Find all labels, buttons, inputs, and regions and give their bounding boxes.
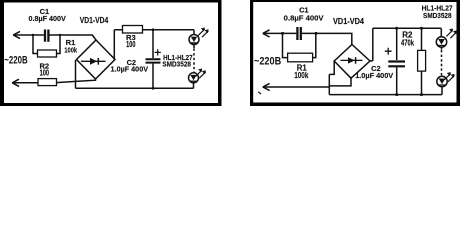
wire: top AC rail from C1 to bridge top corner — [50, 35, 97, 40]
wire: DC- return rail — [76, 87, 194, 89]
svg-text:~220B: ~220B — [254, 56, 281, 68]
capacitor C2 plates (right) — [388, 62, 405, 67]
wire: LED string dashed (right) — [441, 47, 443, 49]
capacitor C2 plates (left) — [146, 59, 161, 62]
wire: top AC rail to C1 — [263, 32, 297, 34]
diode inside bridge (right) — [341, 57, 363, 64]
left panel frame — [0, 0, 222, 106]
wire: stub R1 right (right) — [313, 33, 316, 57]
resistor R1 body — [38, 50, 57, 57]
resistor R1 body (right) — [288, 53, 313, 62]
svg-text:VD1-VD4: VD1-VD4 — [80, 16, 109, 25]
wire: bottom AC rail — [263, 86, 330, 88]
wire: C1 to bridge top stub — [302, 33, 352, 44]
labels left panel — [4, 7, 192, 78]
wire: R2 top branch (right) — [421, 28, 423, 50]
node: C2 bottom junction (right) — [395, 93, 398, 96]
svg-text:470k: 470k — [401, 38, 414, 47]
wire: C2 bottom to return rail — [152, 64, 154, 89]
plus polarity mark C2 (left) — [155, 49, 161, 55]
bridge rectifier VD1-VD4 diamond (left) — [77, 40, 116, 79]
wire: stub down to R1 left — [33, 35, 38, 54]
wire: tall vertical node (right) — [328, 74, 330, 94]
svg-text:100: 100 — [40, 69, 50, 78]
wire: link to bridge left corner (right) — [329, 61, 334, 74]
plus polarity mark C2 (right) — [385, 48, 392, 55]
resistor R2 body — [38, 79, 57, 86]
wire: top AC rail from arrow to C1 — [13, 34, 44, 36]
wire: jog to bridge bottom corner (right) — [329, 78, 351, 86]
wire: LED1 feed (right) — [440, 28, 442, 36]
LED HL27 emission arrows (right) — [444, 72, 454, 82]
svg-text:SMD3528: SMD3528 — [162, 60, 191, 69]
wire: LED2 bottom to return (right) — [441, 87, 443, 95]
wire: DC+ rail from R3 to LED1 — [143, 29, 195, 31]
wire: R2 to bridge bottom corner — [57, 79, 96, 83]
wire: C2 branch down — [152, 30, 154, 58]
svg-text:100: 100 — [126, 40, 136, 49]
LED HL1 (right) — [436, 37, 446, 47]
svg-text:~220B: ~220B — [4, 55, 28, 67]
svg-text:VD1-VD4: VD1-VD4 — [333, 17, 364, 26]
node: C2 top junction — [152, 28, 155, 31]
svg-text:0.8µF 400V: 0.8µF 400V — [284, 14, 324, 23]
svg-text:100k: 100k — [64, 45, 77, 54]
wire: bridge right corner up to DC+ rail — [114, 30, 122, 60]
svg-text:SMD3528: SMD3528 — [423, 11, 452, 20]
node: rail stub junctions (left) — [32, 34, 61, 36]
capacitor C1 plates (right) — [297, 27, 300, 40]
scan speck artifact — [258, 92, 261, 94]
wire: C2 bottom to return (right) — [396, 67, 398, 94]
wire: stub R1 right up to rail — [57, 35, 61, 54]
LED HL27 (right) — [437, 76, 447, 86]
LED HL27 emission arrows (left) — [196, 69, 206, 79]
AC input arrow top (right panel) — [263, 30, 270, 37]
wire: stub down to R1 left (right) — [283, 33, 288, 57]
svg-text:100k: 100k — [294, 71, 309, 80]
wire: DC- return rail (right) — [329, 94, 442, 96]
wire: LED2 bottom to return rail — [193, 83, 195, 89]
bridge rectifier VD1-VD4 diamond (right) — [334, 45, 370, 79]
wire: bottom AC to R2 — [12, 82, 38, 84]
LED HL1 (left) — [189, 35, 199, 45]
AC input arrow top (left panel) — [13, 31, 20, 38]
resistor R2 body vertical (right) — [418, 50, 426, 71]
resistor R3 body — [123, 26, 143, 34]
svg-text:1.0µF 400V: 1.0µF 400V — [111, 65, 149, 74]
svg-text:1.0µF 400V: 1.0µF 400V — [355, 71, 393, 80]
LED HL1 emission arrows (left) — [198, 28, 208, 38]
diode inside bridge (left) — [81, 58, 106, 65]
wire: C2 branch (right) — [396, 28, 398, 60]
node: C1 parallel junctions (right) — [281, 32, 318, 35]
wire: R2 bottom to return (right) — [421, 71, 423, 95]
labels right panel — [254, 4, 453, 81]
capacitor C1 plates — [45, 30, 48, 42]
node: R2 top junction (right) — [420, 27, 423, 30]
wire: bridge right corner up to DC+ rail (right) — [370, 28, 441, 61]
AC input arrow bottom (left panel) — [12, 79, 19, 86]
wire: LED string dashed (left) — [193, 45, 195, 49]
right panel frame — [250, 0, 460, 106]
wire: bridge left corner down to return rail — [75, 60, 77, 88]
svg-text:0.8µF 400V: 0.8µF 400V — [29, 14, 66, 23]
node: C2 top junction (right) — [395, 27, 398, 30]
LED HL27 (left) — [189, 73, 199, 83]
AC input arrow bottom (right panel) — [263, 83, 270, 90]
wire: LED1 feed down — [193, 30, 195, 35]
node: R2 bottom junction (right) — [420, 93, 423, 96]
LED HL1 emission arrows (right) — [446, 29, 457, 39]
node: C2 bottom junction — [152, 87, 155, 90]
